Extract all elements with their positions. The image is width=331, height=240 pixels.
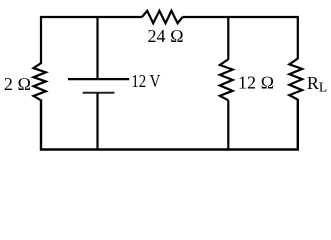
svg-text:RL: RL bbox=[307, 73, 327, 95]
battery V1 top plate (long, positive) bbox=[68, 78, 129, 80]
battery V1 bottom plate (short, negative) bbox=[83, 92, 115, 94]
wire: top wire right segment + right column upper segment bbox=[183, 17, 298, 59]
resistor 2 ohm (vertical zigzag, left branch) bbox=[34, 63, 46, 101]
resistor R2 12 ohm (vertical zigzag, middle branch) bbox=[220, 59, 233, 100]
resistor R1 24 ohm (horizontal zigzag) bbox=[142, 11, 183, 23]
wire: 12-ohm branch lower bbox=[227, 100, 229, 150]
svg-text:12 Ω: 12 Ω bbox=[238, 73, 274, 93]
svg-text:12 V: 12 V bbox=[131, 71, 160, 91]
svg-text:24 Ω: 24 Ω bbox=[148, 26, 184, 46]
wire: left column lower + bottom wire + right column lower bbox=[41, 99, 298, 150]
wire: battery branch lower bbox=[96, 93, 98, 151]
resistor RL load (vertical zigzag, right branch) bbox=[289, 59, 302, 100]
wire: 12-ohm branch upper (junction at top wire x=228.3) bbox=[227, 16, 229, 60]
wire: top-left corner (left column upper segment + top wire to R1) bbox=[41, 17, 142, 63]
svg-text:2 Ω: 2 Ω bbox=[4, 74, 31, 94]
wire: battery branch upper (junction at top wire x=97.5) bbox=[96, 16, 98, 79]
